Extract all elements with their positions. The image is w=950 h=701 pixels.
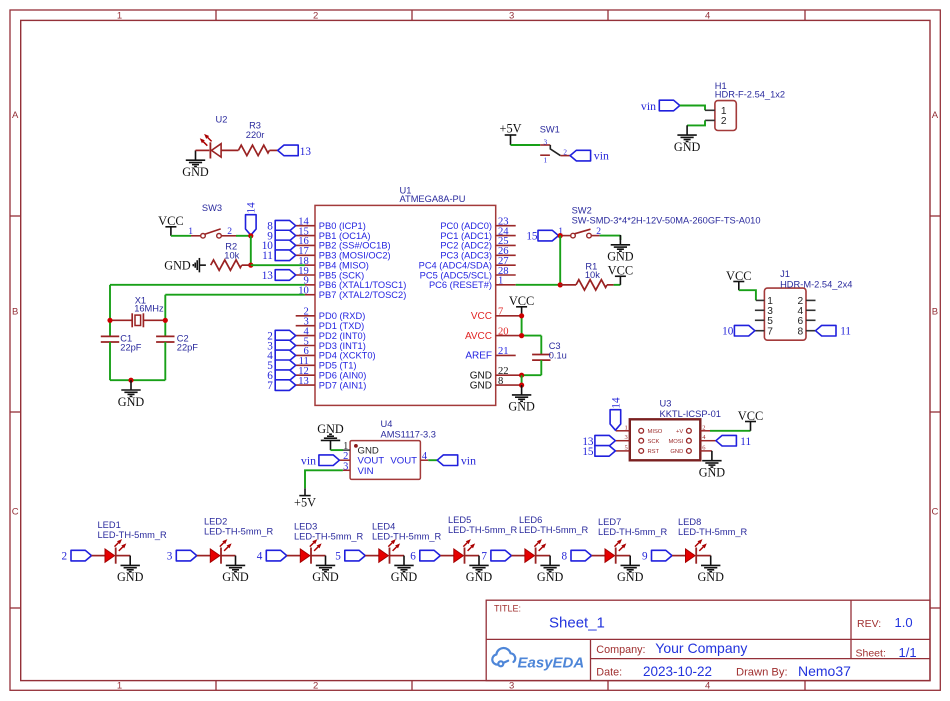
svg-text:vin: vin (301, 453, 316, 467)
junction (128, 378, 133, 383)
net flag 7 (275, 380, 296, 391)
net flag 6 (275, 370, 296, 381)
IC U1 ATMEGA8A-PU body (315, 205, 496, 405)
svg-text:22pF: 22pF (120, 343, 142, 353)
U1 pin 26 PC3 (ADC3) (496, 254, 516, 256)
svg-text:SW2: SW2 (572, 205, 592, 215)
svg-text:1.0: 1.0 (895, 615, 913, 630)
U1 pin 2 PD0 (RXD) (296, 315, 315, 317)
svg-text:20: 20 (498, 326, 509, 337)
U1 pin 11 PD5 (T1) (296, 364, 315, 366)
svg-text:0.1u: 0.1u (549, 350, 567, 360)
connector J1 body (764, 288, 806, 340)
svg-text:3: 3 (167, 551, 173, 563)
svg-text:C: C (931, 506, 938, 517)
U1 pin 18 PB4 (MISO) (305, 264, 315, 266)
ground at LED3 (316, 556, 335, 572)
junction (163, 318, 168, 323)
net flag 3 (275, 340, 296, 351)
U1 pin 9 PB6 (XTAL1/TOSC1) (305, 284, 315, 286)
svg-text:SW1: SW1 (540, 125, 560, 135)
capacitor C3 (532, 354, 550, 356)
ground at LED4 (394, 556, 413, 572)
svg-text:PD1 (TXD): PD1 (TXD) (319, 321, 364, 331)
LED U2 (212, 144, 222, 157)
svg-text:14: 14 (610, 397, 622, 409)
svg-text:LED6: LED6 (519, 515, 542, 525)
ground at H1 (677, 125, 696, 141)
net flag 8 at LED7 (571, 550, 592, 561)
U1 pin 13 PD7 (AIN1) (296, 384, 315, 386)
svg-text:GND: GND (607, 250, 634, 264)
svg-text:VIN: VIN (358, 466, 374, 477)
svg-text:PC1 (ADC1): PC1 (ADC1) (440, 231, 492, 241)
svg-text:7: 7 (498, 307, 503, 318)
junction (558, 233, 563, 238)
svg-text:Date:: Date: (596, 667, 622, 679)
svg-text:GND: GND (391, 570, 418, 584)
svg-text:LED-TH-5mm_R: LED-TH-5mm_R (204, 527, 273, 537)
svg-text:4: 4 (422, 451, 428, 462)
svg-text:GND: GND (312, 570, 339, 584)
LED5 diode (440, 555, 454, 557)
LED1 diode (92, 555, 106, 557)
net flag vin at U4 pin 4 (437, 455, 458, 466)
J1 pin 3 (755, 309, 765, 311)
net flag 13 (278, 145, 299, 156)
H1 pin 2 (705, 119, 715, 121)
wire (171, 235, 191, 237)
title block (486, 600, 930, 680)
svg-text:Nemo37: Nemo37 (798, 663, 851, 679)
wire (739, 290, 756, 300)
svg-text:EasyEDA: EasyEDA (518, 655, 585, 672)
U1 pin 1 PC6 (RESET#) (496, 284, 516, 286)
ground at X1 (121, 380, 140, 396)
svg-text:vin: vin (641, 99, 656, 113)
wire (540, 360, 542, 375)
svg-text:3: 3 (544, 138, 548, 146)
U4 pin 3 VIN (343, 469, 350, 471)
svg-text:2: 2 (313, 11, 318, 22)
U1 pin 10 PB7 (XTAL2/TOSC2) (305, 294, 315, 296)
svg-text:LED3: LED3 (294, 522, 317, 532)
wire (165, 294, 305, 296)
U1 pin 5 PD3 (INT1) (296, 345, 315, 347)
svg-text:LED8: LED8 (678, 517, 701, 527)
svg-text:PD2 (INT0): PD2 (INT0) (319, 331, 366, 341)
net flag 3 at LED2 (176, 550, 197, 561)
net flag 11 (275, 250, 296, 261)
U1 pin 8 GND (496, 384, 522, 386)
resistor R3 (221, 149, 238, 151)
U1 pin 28 PC5 (ADC5/SCL) (496, 274, 516, 276)
svg-text:1: 1 (188, 226, 193, 237)
wire (687, 120, 705, 125)
svg-text:PB3 (MOSI/OC2): PB3 (MOSI/OC2) (319, 251, 391, 261)
svg-text:GND: GND (117, 570, 144, 584)
net flag 13 at U3 (595, 435, 616, 446)
svg-text:PD3 (INT1): PD3 (INT1) (319, 341, 366, 351)
switch SW3 (191, 235, 201, 237)
wire (521, 316, 523, 336)
svg-text:LED-TH-5mm_R: LED-TH-5mm_R (519, 525, 588, 535)
power flag VCC at J1 (733, 282, 744, 291)
net flag 5 (275, 360, 296, 371)
svg-text:SW-SMD-3*4*2H-12V-50MA-260GF-T: SW-SMD-3*4*2H-12V-50MA-260GF-TS-A010 (572, 216, 761, 226)
power flag +5V at SW1 (505, 135, 517, 145)
U1 pin 4 PD2 (INT0) (296, 335, 315, 337)
svg-text:U2: U2 (216, 115, 228, 125)
U3 pin 1 (616, 430, 630, 432)
svg-text:Sheet_1: Sheet_1 (549, 614, 605, 631)
ground at LED2 (226, 556, 245, 572)
svg-text:LED1: LED1 (98, 520, 121, 530)
U4 pin 1 GND (343, 449, 350, 451)
U3 pin 4 (700, 440, 716, 442)
svg-text:Sheet:: Sheet: (856, 647, 886, 659)
junction (519, 373, 524, 378)
svg-text:GND: GND (537, 570, 564, 584)
svg-text:LED-TH-5mm_R: LED-TH-5mm_R (598, 527, 667, 537)
svg-text:GND: GND (466, 570, 493, 584)
J1 pin 6 (806, 319, 816, 321)
svg-text:PB7 (XTAL2/TOSC2): PB7 (XTAL2/TOSC2) (319, 290, 407, 300)
svg-text:PC6 (RESET#): PC6 (RESET#) (429, 280, 492, 290)
svg-text:2: 2 (702, 424, 705, 431)
svg-text:KKTL-ICSP-01: KKTL-ICSP-01 (660, 409, 721, 419)
svg-text:15: 15 (526, 230, 538, 242)
U1 pin 14 PB0 (ICP1) (296, 225, 315, 227)
wire (331, 449, 344, 451)
svg-text:5: 5 (625, 444, 628, 451)
svg-text:GND: GND (699, 466, 726, 480)
svg-text:7: 7 (481, 551, 487, 563)
LED8 diode (672, 555, 686, 557)
wire (680, 106, 705, 111)
svg-text:U3: U3 (660, 399, 672, 409)
U1 pin 16 PB2 (SS#/OC1B) (296, 244, 315, 246)
svg-text:14: 14 (246, 202, 258, 214)
svg-text:PB6 (XTAL1/TOSC1): PB6 (XTAL1/TOSC1) (319, 280, 407, 290)
svg-text:+5V: +5V (294, 496, 316, 510)
svg-text:Drawn By:: Drawn By: (736, 667, 788, 679)
svg-text:21: 21 (498, 346, 509, 357)
net flag 4 at LED3 (266, 550, 287, 561)
svg-text:vin: vin (461, 453, 476, 467)
svg-text:B: B (12, 307, 18, 318)
svg-text:LED-TH-5mm_R: LED-TH-5mm_R (98, 530, 167, 540)
svg-text:GND: GND (182, 165, 209, 179)
svg-text:8: 8 (798, 326, 804, 337)
ground at SW2 (611, 235, 630, 251)
svg-text:LED-TH-5mm_R: LED-TH-5mm_R (448, 525, 517, 535)
ground at U2 (186, 150, 205, 166)
net flag 7 at LED6 (491, 550, 512, 561)
J1 pin 5 (755, 319, 765, 321)
net flag vin at U4 pin 2 (319, 455, 340, 466)
svg-text:13: 13 (298, 376, 309, 387)
net flag 11 at J1 (816, 325, 837, 336)
net flag 11 at U3 (716, 435, 737, 446)
svg-text:22pF: 22pF (177, 343, 199, 353)
LED4 diode (365, 555, 379, 557)
ground at R2 (193, 258, 206, 272)
svg-text:8: 8 (562, 551, 568, 563)
net flag 14 at U3 (vertical) (610, 410, 621, 431)
connector H1 body (715, 101, 736, 131)
svg-text:5: 5 (767, 316, 773, 327)
svg-text:LED-TH-5mm_R: LED-TH-5mm_R (678, 527, 747, 537)
net flag 10 (275, 240, 296, 251)
U1 pin 24 PC1 (ADC1) (496, 235, 516, 237)
wire (522, 335, 542, 337)
U3 pin 5 (616, 450, 630, 452)
U1 pin 22 GND (496, 374, 522, 376)
svg-text:LED2: LED2 (204, 517, 227, 527)
U3 pin 2 (700, 430, 710, 432)
svg-text:4: 4 (257, 551, 263, 563)
svg-text:A: A (12, 110, 19, 121)
svg-text:GND: GND (670, 449, 683, 455)
J1 pin 4 (806, 309, 816, 311)
svg-text:VCC: VCC (608, 264, 633, 278)
svg-text:+V: +V (676, 429, 683, 435)
svg-text:16MHz: 16MHz (134, 304, 164, 314)
svg-text:13: 13 (300, 146, 312, 158)
svg-text:GND: GND (164, 258, 191, 272)
capacitor C1 (101, 335, 119, 337)
svg-text:10k: 10k (224, 251, 239, 261)
svg-text:HDR-F-2.54_1x2: HDR-F-2.54_1x2 (715, 90, 785, 100)
LED7 diode (592, 555, 606, 557)
svg-text:LED-TH-5mm_R: LED-TH-5mm_R (294, 532, 363, 542)
U1 pin 3 PD1 (TXD) (296, 325, 315, 327)
svg-text:MISO: MISO (648, 429, 663, 435)
wire (559, 236, 561, 285)
svg-text:AVCC: AVCC (465, 331, 492, 342)
LED2 diode (197, 555, 211, 557)
wire (521, 375, 523, 385)
svg-text:3: 3 (625, 434, 628, 441)
wire (516, 284, 561, 286)
J1 pin 8 (806, 330, 816, 332)
J1 pin 7 (755, 330, 765, 332)
svg-text:PC5 (ADC5/SCL): PC5 (ADC5/SCL) (420, 270, 492, 280)
U1 pin 23 PC0 (ADC0) (496, 225, 516, 227)
power flag VCC at SW3 (165, 227, 176, 236)
svg-text:PB2 (SS#/OC1B): PB2 (SS#/OC1B) (319, 241, 391, 251)
U1 pin 6 PD4 (XCKT0) (296, 354, 315, 356)
svg-text:1/1: 1/1 (899, 645, 917, 660)
switch SW1 (540, 144, 550, 146)
svg-text:1: 1 (117, 11, 122, 22)
capacitor C2 (156, 335, 174, 337)
svg-text:PD0 (RXD): PD0 (RXD) (319, 311, 366, 321)
svg-text:PB5 (SCK): PB5 (SCK) (319, 270, 364, 280)
svg-text:GND: GND (317, 422, 344, 436)
svg-text:SCK: SCK (648, 439, 660, 445)
U1 pin 27 PC4 (ADC4/SDA) (496, 264, 516, 266)
svg-text:LED4: LED4 (372, 522, 395, 532)
svg-text:11: 11 (262, 250, 273, 262)
svg-text:7: 7 (767, 326, 773, 337)
svg-text:5: 5 (335, 551, 341, 563)
net flag 5 at LED4 (345, 550, 366, 561)
svg-text:8: 8 (498, 376, 503, 387)
connector U3 KKTL-ICSP-01 body (630, 419, 701, 460)
power flag VCC at U1 pin 7 (516, 307, 527, 316)
svg-text:VCC: VCC (509, 294, 534, 308)
power flag VCC at U3 (745, 422, 756, 431)
svg-text:PB4 (MISO): PB4 (MISO) (319, 260, 369, 270)
svg-text:VOUT: VOUT (390, 456, 417, 467)
wire (305, 470, 343, 488)
junction (107, 318, 112, 323)
svg-text:AREF: AREF (465, 351, 492, 362)
net flag 4 (275, 350, 296, 361)
U3 pin 6 (700, 450, 712, 452)
svg-text:J1: J1 (780, 269, 790, 279)
svg-text:6: 6 (410, 551, 416, 563)
svg-text:PD4 (XCKT0): PD4 (XCKT0) (319, 351, 376, 361)
svg-text:13: 13 (262, 270, 274, 282)
resistor R1 (560, 284, 576, 286)
ground at LED7 (621, 556, 640, 572)
junction (519, 383, 524, 388)
junction (248, 233, 253, 238)
svg-text:HDR-M-2.54_2x4: HDR-M-2.54_2x4 (780, 280, 852, 290)
U1 pin 21 AREF (496, 354, 516, 356)
svg-text:4: 4 (705, 11, 710, 22)
net flag 2 (275, 330, 296, 341)
svg-text:SW3: SW3 (202, 203, 222, 213)
svg-text:MOSI: MOSI (668, 439, 683, 445)
net flag 10 (734, 325, 755, 336)
svg-text:A: A (932, 110, 939, 121)
wire (428, 459, 437, 461)
svg-text:ATMEGA8A-PU: ATMEGA8A-PU (400, 194, 466, 204)
svg-text:REV:: REV: (857, 618, 881, 630)
wire (600, 235, 621, 237)
U1 pin 19 PB5 (SCK) (296, 274, 315, 276)
svg-text:7: 7 (267, 380, 273, 392)
net flag vin (570, 150, 591, 161)
svg-text:VCC: VCC (158, 214, 183, 228)
EasyEDA logo (492, 648, 515, 666)
U1 pin 7 VCC (496, 315, 522, 317)
svg-text:PD5 (T1): PD5 (T1) (319, 361, 357, 371)
svg-text:LED-TH-5mm_R: LED-TH-5mm_R (372, 532, 441, 542)
ground at LED6 (540, 556, 559, 572)
svg-text:PD7 (AIN1): PD7 (AIN1) (319, 380, 367, 390)
svg-text:11: 11 (740, 436, 751, 448)
svg-text:GND: GND (674, 140, 701, 154)
svg-text:LED5: LED5 (448, 515, 471, 525)
svg-text:10k: 10k (585, 270, 600, 280)
svg-text:PC3 (ADC3): PC3 (ADC3) (440, 251, 492, 261)
U1 pin 25 PC2 (ADC2) (496, 244, 516, 246)
svg-text:PC4 (ADC4/SDA): PC4 (ADC4/SDA) (419, 260, 492, 270)
regulator U4 AMS1117-3.3 body (350, 441, 420, 480)
net flag 6 at LED5 (420, 550, 441, 561)
svg-text:GND: GND (697, 570, 724, 584)
J1 pin 2 (806, 299, 816, 301)
svg-text:15: 15 (582, 446, 594, 458)
svg-text:1: 1 (625, 424, 628, 431)
ground at U4 (321, 434, 340, 450)
svg-text:PC0 (ADC0): PC0 (ADC0) (440, 221, 492, 231)
svg-text:1: 1 (498, 276, 503, 287)
power flag VCC at R1 (615, 276, 626, 285)
svg-text:vin: vin (594, 149, 609, 163)
svg-text:220r: 220r (246, 130, 265, 140)
svg-text:3: 3 (343, 461, 348, 472)
svg-text:GND: GND (617, 570, 644, 584)
svg-text:10: 10 (722, 326, 734, 338)
svg-text:11: 11 (840, 326, 851, 338)
resistor R2 (211, 260, 242, 270)
junction (519, 333, 524, 338)
net flag 15 (538, 230, 559, 241)
svg-text:AMS1117-3.3: AMS1117-3.3 (381, 429, 436, 439)
svg-text:GND: GND (470, 380, 492, 391)
junction (519, 313, 524, 318)
svg-text:PD6 (AIN0): PD6 (AIN0) (319, 371, 367, 381)
svg-text:PB0 (ICP1): PB0 (ICP1) (319, 221, 366, 231)
J1 pin 1 (756, 299, 765, 301)
U1 pin 15 PB1 (OC1A) (296, 235, 315, 237)
svg-text:2: 2 (62, 551, 68, 563)
svg-text:3: 3 (509, 680, 514, 691)
svg-text:Company:: Company: (596, 644, 645, 656)
svg-text:B: B (932, 307, 938, 318)
net flag 15 at U3 (595, 446, 616, 457)
svg-text:Your Company: Your Company (655, 640, 747, 656)
H1 pin 1 (705, 109, 715, 111)
svg-text:PC2 (ADC2): PC2 (ADC2) (440, 241, 492, 251)
power flag +5V at U4 (299, 488, 310, 495)
svg-text:GND: GND (508, 400, 535, 414)
junction (248, 263, 253, 268)
ground at U1 pin 8 (512, 385, 531, 401)
svg-text:C: C (12, 506, 19, 517)
svg-text:C3: C3 (549, 341, 561, 351)
wire (250, 236, 252, 265)
svg-text:+5V: +5V (500, 121, 522, 135)
svg-text:U4: U4 (381, 419, 393, 429)
wire (236, 235, 251, 237)
svg-text:9: 9 (642, 551, 648, 563)
U1 pin 12 PD6 (AIN0) (296, 374, 315, 376)
ground at U3 (702, 451, 721, 467)
wire (109, 342, 111, 380)
ground at LED8 (701, 556, 720, 572)
svg-text:VCC: VCC (471, 311, 492, 322)
ground at LED5 (469, 556, 488, 572)
net flag 9 at LED8 (652, 550, 673, 561)
U4 pin 2 VOUT (339, 459, 350, 461)
wire (110, 379, 165, 381)
wire (110, 284, 305, 286)
U4 pin 4 VOUT (420, 459, 428, 461)
svg-text:1: 1 (117, 680, 122, 691)
svg-text:2: 2 (313, 680, 318, 691)
net flag 2 at LED1 (71, 550, 92, 561)
svg-text:3: 3 (509, 11, 514, 22)
U1 pin 20 AVCC (496, 335, 522, 337)
wire (196, 149, 210, 151)
